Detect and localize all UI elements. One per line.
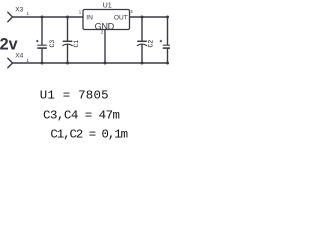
capacitor C2 leads xyxy=(141,17,143,63)
svg-text:C1: C1 xyxy=(73,40,80,48)
capacitor C1 plates xyxy=(63,40,73,42)
junction dot bottom C1 xyxy=(66,62,69,65)
svg-text:C2: C2 xyxy=(148,40,155,48)
connector X3 xyxy=(8,12,13,21)
capacitor C1 leads xyxy=(67,17,69,63)
capacitor C2 plates xyxy=(137,40,147,42)
svg-text:IN: IN xyxy=(86,15,93,22)
capacitor C4 bottom plate bar xyxy=(163,47,170,49)
svg-text:12v: 12v xyxy=(0,36,18,54)
capacitor C3 top plate xyxy=(37,44,47,46)
C4 plus sign xyxy=(160,40,162,42)
svg-text:U1 = 7805: U1 = 7805 xyxy=(40,89,109,103)
capacitor C3 leads xyxy=(41,17,43,63)
junction dot top C1 xyxy=(66,16,69,19)
wire bottom rail xyxy=(13,62,168,64)
svg-text:1: 1 xyxy=(27,58,30,63)
junction dot top C2 xyxy=(141,16,144,19)
junction dot bottom GND xyxy=(104,62,107,65)
capacitor C3 bottom plate bar xyxy=(37,47,47,49)
wire top rail left xyxy=(13,16,84,18)
capacitor C4 leads xyxy=(167,17,169,63)
junction dot bottom C3 xyxy=(41,62,44,65)
junction dot bottom C4 xyxy=(166,62,169,65)
svg-text:C3: C3 xyxy=(49,40,56,48)
C3 plus sign xyxy=(36,40,38,42)
svg-text:U1: U1 xyxy=(103,1,112,10)
wire GND stub xyxy=(104,30,106,64)
svg-text:X3: X3 xyxy=(15,7,23,14)
svg-text:C1,C2 = 0,1m: C1,C2 = 0,1m xyxy=(50,128,127,142)
junction dot top C4 xyxy=(166,16,169,19)
junction dot bottom C2 xyxy=(141,62,144,65)
junction dot top C3 xyxy=(41,16,44,19)
capacitor C4 top plate xyxy=(163,44,170,46)
wire top rail right xyxy=(130,16,168,18)
svg-text:OUT: OUT xyxy=(114,15,128,22)
svg-text:3: 3 xyxy=(130,9,133,14)
op-amp U1 7805 regulator box xyxy=(83,10,130,30)
svg-text:GND: GND xyxy=(95,21,115,31)
svg-text:1: 1 xyxy=(79,10,82,15)
connector X4 xyxy=(8,58,13,67)
svg-text:C3,C4 = 47m: C3,C4 = 47m xyxy=(43,109,120,123)
svg-text:1: 1 xyxy=(27,11,30,16)
